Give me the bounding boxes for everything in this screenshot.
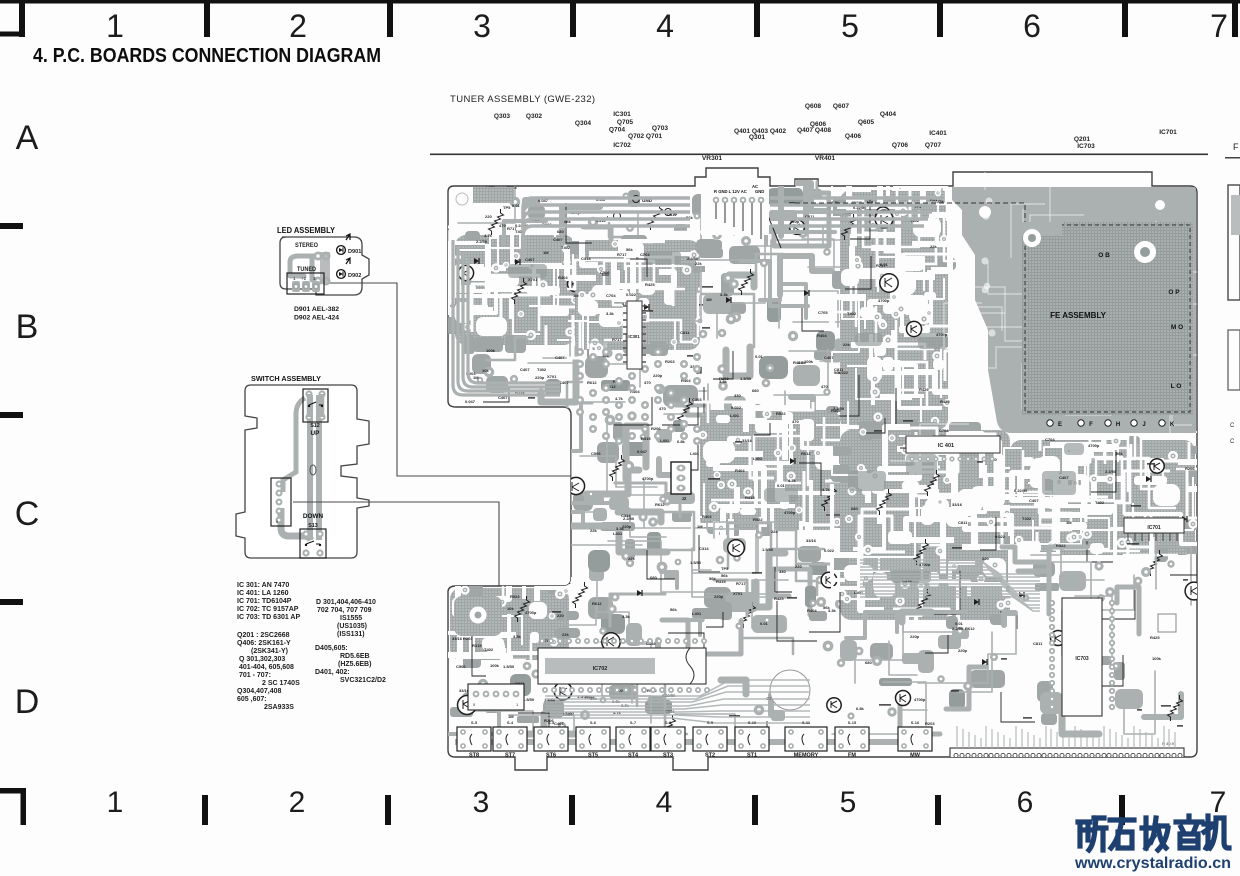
svg-text:F: F bbox=[1089, 422, 1093, 428]
svg-text:O P: O P bbox=[1168, 289, 1180, 296]
svg-text:Q704: Q704 bbox=[609, 127, 625, 134]
svg-text:S-9: S-9 bbox=[707, 720, 714, 725]
svg-text:10k: 10k bbox=[507, 606, 514, 611]
svg-text:C811: C811 bbox=[958, 520, 968, 525]
svg-text:1.5/50: 1.5/50 bbox=[740, 376, 752, 381]
svg-text:680: 680 bbox=[865, 660, 872, 665]
svg-text:1.5/50: 1.5/50 bbox=[503, 664, 515, 669]
svg-text:R717: R717 bbox=[612, 337, 622, 342]
trace fan bundle right bbox=[860, 560, 1040, 611]
svg-text:22k: 22k bbox=[628, 556, 635, 561]
svg-text:0.22/50: 0.22/50 bbox=[1014, 488, 1028, 493]
svg-text:0.022: 0.022 bbox=[824, 548, 835, 553]
svg-text:22k: 22k bbox=[562, 632, 569, 637]
board hole bbox=[770, 670, 810, 710]
ground pad bbox=[454, 596, 502, 636]
svg-text:1M: 1M bbox=[706, 297, 712, 302]
svg-text:R612: R612 bbox=[965, 626, 975, 631]
svg-text:Q201: Q201 bbox=[1074, 136, 1090, 143]
svg-text:R429: R429 bbox=[919, 387, 929, 392]
switch assembly internal traces bbox=[310, 395, 319, 540]
svg-text:0.01: 0.01 bbox=[755, 354, 764, 359]
corner pour square bbox=[473, 187, 514, 203]
switch assembly board outline bbox=[236, 385, 369, 558]
svg-text:IC301: IC301 bbox=[613, 111, 631, 118]
svg-text:C407: C407 bbox=[559, 380, 569, 385]
bottom-left corner bracket bbox=[0, 788, 26, 794]
svg-text:J2: J2 bbox=[682, 496, 687, 501]
FE mounting holes bbox=[1023, 229, 1041, 247]
svg-text:R315: R315 bbox=[641, 436, 651, 441]
svg-text:220: 220 bbox=[485, 214, 492, 219]
svg-text:C407: C407 bbox=[520, 367, 530, 372]
svg-text:C407: C407 bbox=[824, 355, 834, 360]
svg-text:3.3k: 3.3k bbox=[606, 311, 615, 316]
svg-text:IC 401: IC 401 bbox=[938, 443, 954, 449]
svg-text:401-404, 605,608: 401-404, 605,608 bbox=[239, 664, 294, 671]
svg-text:Q407 Q408: Q407 Q408 bbox=[797, 127, 831, 134]
svg-text:S13: S13 bbox=[308, 523, 318, 529]
svg-text:TUNER ASSEMBLY (GWE-232): TUNER ASSEMBLY (GWE-232) bbox=[450, 94, 595, 105]
svg-text:O B: O B bbox=[1098, 252, 1110, 259]
svg-text:R717: R717 bbox=[876, 263, 886, 268]
IC702 bbox=[538, 648, 706, 684]
svg-text:1: 1 bbox=[106, 8, 124, 44]
svg-text:S12: S12 bbox=[310, 423, 320, 429]
svg-text:56k: 56k bbox=[823, 605, 830, 610]
svg-text:33/16: 33/16 bbox=[806, 538, 817, 543]
svg-text:L401: L401 bbox=[690, 451, 700, 456]
tuner board copper texture bbox=[442, 180, 1205, 741]
svg-text:R425: R425 bbox=[774, 596, 784, 601]
svg-text:Q702 Q701: Q702 Q701 bbox=[628, 133, 662, 140]
bottom edge connector strip bbox=[950, 748, 1184, 763]
svg-text:1.5/50: 1.5/50 bbox=[523, 697, 535, 702]
switch MW bbox=[898, 727, 932, 751]
svg-text:C314: C314 bbox=[621, 513, 631, 518]
svg-text:R404: R404 bbox=[702, 514, 712, 519]
svg-text:220: 220 bbox=[982, 556, 989, 561]
svg-text:C314: C314 bbox=[581, 256, 591, 261]
svg-text:R203: R203 bbox=[925, 721, 935, 726]
svg-text:56k: 56k bbox=[626, 247, 633, 252]
oval hole bbox=[310, 465, 316, 475]
svg-text:C: C bbox=[15, 495, 40, 533]
svg-text:56k: 56k bbox=[670, 607, 677, 612]
svg-text:IC703: IC703 bbox=[1075, 656, 1089, 662]
left edge trace band bbox=[453, 240, 560, 395]
svg-text:4700p: 4700p bbox=[525, 610, 537, 615]
svg-text:3: 3 bbox=[473, 786, 490, 819]
svg-text:6: 6 bbox=[1023, 8, 1041, 44]
header separator line bbox=[430, 154, 1208, 156]
svg-text:L401: L401 bbox=[692, 611, 702, 616]
svg-text:10k: 10k bbox=[482, 368, 489, 373]
switch ST8 bbox=[457, 727, 491, 751]
svg-text:C407: C407 bbox=[554, 721, 564, 726]
svg-text:2.2/50: 2.2/50 bbox=[1105, 469, 1117, 474]
svg-text:100k: 100k bbox=[804, 359, 814, 364]
svg-text:S-10: S-10 bbox=[748, 720, 757, 725]
diode D902 bbox=[337, 270, 346, 279]
svg-text:Q301: Q301 bbox=[749, 134, 765, 141]
svg-text:C704: C704 bbox=[640, 252, 650, 257]
switch ST6 bbox=[534, 727, 568, 751]
svg-text:7: 7 bbox=[1210, 8, 1228, 44]
svg-text:R612: R612 bbox=[592, 601, 602, 606]
svg-text:S-11: S-11 bbox=[802, 720, 811, 725]
svg-text:C811: C811 bbox=[680, 330, 690, 335]
trace fan bundle below IC702 bbox=[545, 680, 810, 723]
svg-text:R315: R315 bbox=[716, 579, 726, 584]
svg-text:5: 5 bbox=[840, 786, 857, 819]
wire from switch assembly to tuner board bbox=[293, 502, 499, 586]
svg-text:3: 3 bbox=[473, 8, 491, 44]
svg-text:1: 1 bbox=[107, 786, 124, 819]
svg-text:R612: R612 bbox=[655, 502, 665, 507]
svg-text:22k: 22k bbox=[843, 342, 850, 347]
svg-text:RD5.6EB: RD5.6EB bbox=[340, 653, 370, 660]
svg-text:TP5: TP5 bbox=[503, 205, 511, 210]
svg-text:100k: 100k bbox=[486, 348, 496, 353]
GND label bbox=[633, 196, 640, 203]
svg-text:220p: 220p bbox=[958, 648, 968, 653]
svg-text:(ISS131): (ISS131) bbox=[337, 631, 365, 638]
svg-text:IC 301: AN 7470: IC 301: AN 7470 bbox=[237, 582, 289, 589]
svg-text:L401: L401 bbox=[613, 531, 623, 536]
switch ST7 bbox=[493, 727, 527, 751]
svg-text:D401, 402:: D401, 402: bbox=[315, 669, 350, 676]
svg-text:22k: 22k bbox=[695, 261, 702, 266]
switch ST5 bbox=[576, 727, 610, 751]
svg-text:680: 680 bbox=[557, 229, 564, 234]
svg-text:D902: D902 bbox=[348, 273, 361, 279]
svg-text:2: 2 bbox=[289, 786, 306, 819]
svg-text:4700p: 4700p bbox=[1088, 443, 1100, 448]
svg-text:R717: R717 bbox=[736, 581, 746, 586]
svg-text:33/16: 33/16 bbox=[452, 636, 463, 641]
svg-text:D: D bbox=[15, 683, 40, 721]
svg-text:220p: 220p bbox=[714, 594, 724, 599]
connector J2 bbox=[671, 462, 691, 494]
svg-text:4700p: 4700p bbox=[914, 697, 926, 702]
svg-text:Q703: Q703 bbox=[652, 125, 668, 132]
svg-text:6.8k: 6.8k bbox=[856, 706, 865, 711]
svg-text:680: 680 bbox=[650, 575, 657, 580]
top ruler line bbox=[0, 0, 1240, 4]
top-right copper pour bbox=[948, 187, 1196, 433]
diode D901 bbox=[337, 246, 346, 255]
svg-text:+2: +2 bbox=[301, 276, 307, 281]
svg-text:IC301: IC301 bbox=[628, 334, 640, 339]
svg-text:C704: C704 bbox=[606, 293, 616, 298]
pour faint texture bbox=[1064, 319, 1104, 368]
svg-text:100k: 100k bbox=[1152, 656, 1162, 661]
svg-text:K: K bbox=[1170, 422, 1175, 428]
svg-text:4700p: 4700p bbox=[878, 298, 890, 303]
logo char shou bbox=[1142, 818, 1168, 850]
svg-text:R429: R429 bbox=[793, 360, 803, 365]
svg-text:C407: C407 bbox=[1059, 475, 1069, 480]
svg-text:R612: R612 bbox=[587, 380, 597, 385]
svg-text:5: 5 bbox=[841, 8, 859, 44]
svg-text:IC703: IC703 bbox=[1077, 143, 1095, 150]
svg-text:0.022: 0.022 bbox=[626, 292, 637, 297]
pad grid columns bbox=[576, 348, 584, 356]
svg-text:C506: C506 bbox=[456, 664, 466, 669]
svg-text:STEREO: STEREO bbox=[295, 243, 318, 249]
switch ST1 bbox=[735, 727, 769, 751]
svg-text:R522: R522 bbox=[753, 517, 763, 522]
svg-text:7: 7 bbox=[1210, 786, 1227, 819]
svg-text:3.3k: 3.3k bbox=[513, 634, 522, 639]
svg-text:R404: R404 bbox=[831, 408, 841, 413]
IC703 bbox=[1062, 598, 1102, 716]
pour white holes bbox=[979, 206, 991, 218]
svg-text:680: 680 bbox=[752, 388, 759, 393]
svg-text:Q302: Q302 bbox=[526, 113, 542, 120]
svg-text:56k: 56k bbox=[1116, 451, 1123, 456]
tab pin clearance bbox=[701, 187, 769, 235]
svg-text:S-16: S-16 bbox=[911, 720, 920, 725]
switch 6-pin connector bbox=[271, 478, 291, 526]
svg-text:1M: 1M bbox=[573, 293, 579, 298]
svg-text:C407: C407 bbox=[553, 237, 563, 242]
svg-text:Q707: Q707 bbox=[925, 142, 941, 149]
svg-text:R425: R425 bbox=[645, 282, 655, 287]
svg-text:S-6: S-6 bbox=[590, 720, 597, 725]
svg-text:www.crystalradio.cn: www.crystalradio.cn bbox=[1074, 855, 1231, 872]
IC401 bbox=[906, 436, 1000, 453]
svg-text:0.01: 0.01 bbox=[955, 621, 964, 626]
svg-text:UP: UP bbox=[311, 430, 321, 437]
svg-text:L O: L O bbox=[1171, 383, 1182, 390]
svg-text:0.01: 0.01 bbox=[512, 203, 521, 208]
svg-text:D901 AEL-382: D901 AEL-382 bbox=[294, 306, 339, 313]
svg-text:T402: T402 bbox=[1095, 500, 1105, 505]
svg-text:T402: T402 bbox=[484, 647, 494, 652]
logo char shi bbox=[1110, 820, 1134, 848]
svg-text:T402: T402 bbox=[537, 367, 547, 372]
svg-text:2.2/50: 2.2/50 bbox=[687, 256, 699, 261]
svg-text:2 SC 1740S: 2 SC 1740S bbox=[262, 680, 300, 687]
svg-text:X701: X701 bbox=[528, 277, 538, 282]
svg-text:Q304,407,408: Q304,407,408 bbox=[237, 688, 281, 695]
svg-text:0.01: 0.01 bbox=[760, 621, 769, 626]
svg-text:22k: 22k bbox=[590, 528, 597, 533]
svg-text:R522: R522 bbox=[510, 594, 520, 599]
svg-text:470: 470 bbox=[821, 384, 828, 389]
svg-text:470: 470 bbox=[499, 223, 506, 228]
svg-text:C811: C811 bbox=[834, 367, 844, 372]
svg-text:E: E bbox=[1058, 422, 1062, 428]
svg-text:IC 701: TD6104P: IC 701: TD6104P bbox=[237, 598, 292, 605]
svg-text:Q705: Q705 bbox=[617, 119, 633, 126]
svg-text:T402: T402 bbox=[1022, 516, 1032, 521]
svg-text:C705: C705 bbox=[818, 310, 828, 315]
svg-text:VR401: VR401 bbox=[815, 155, 835, 162]
logo char ji bbox=[1204, 816, 1229, 848]
svg-text:IC701: IC701 bbox=[1147, 525, 1161, 531]
svg-text:1.5/50: 1.5/50 bbox=[690, 560, 702, 565]
svg-text:R425: R425 bbox=[1150, 635, 1160, 640]
svg-text:470: 470 bbox=[659, 406, 666, 411]
svg-text:S-15: S-15 bbox=[848, 720, 857, 725]
svg-text:4: 4 bbox=[656, 8, 674, 44]
svg-text:4700p: 4700p bbox=[642, 476, 654, 481]
svg-text:Q706: Q706 bbox=[892, 142, 908, 149]
svg-text:1M: 1M bbox=[697, 524, 703, 529]
svg-text:220p: 220p bbox=[653, 373, 663, 378]
svg-text:SVC321C2/D2: SVC321C2/D2 bbox=[340, 677, 386, 684]
top-left corner bracket bbox=[0, 32, 25, 37]
switch ST2 bbox=[693, 727, 727, 751]
svg-text:220: 220 bbox=[795, 564, 802, 569]
S12 switch symbol bbox=[309, 402, 323, 405]
svg-text:S-4: S-4 bbox=[507, 720, 514, 725]
svg-text:R522: R522 bbox=[776, 411, 786, 416]
logo char kuang bbox=[1078, 818, 1106, 850]
svg-text:SWITCH ASSEMBLY: SWITCH ASSEMBLY bbox=[251, 374, 321, 383]
svg-text:R404: R404 bbox=[735, 468, 745, 473]
L label bbox=[614, 213, 621, 220]
svg-text:C704: C704 bbox=[1045, 437, 1055, 442]
svg-text:(US1035): (US1035) bbox=[337, 623, 367, 630]
svg-text:220: 220 bbox=[557, 613, 564, 618]
svg-text:4700p: 4700p bbox=[784, 510, 796, 515]
svg-text:Q 301,302,303: Q 301,302,303 bbox=[239, 656, 285, 663]
svg-text:Q605: Q605 bbox=[858, 119, 874, 126]
svg-text:C314: C314 bbox=[699, 546, 709, 551]
svg-text:2: 2 bbox=[289, 8, 307, 44]
svg-text:R404: R404 bbox=[817, 333, 827, 338]
crystalradio.cn logo bbox=[1078, 816, 1229, 850]
svg-text:TP5: TP5 bbox=[721, 566, 729, 571]
FE assembly block bbox=[1022, 222, 1193, 415]
svg-text:22k: 22k bbox=[771, 529, 778, 534]
svg-text:100k: 100k bbox=[490, 663, 500, 668]
svg-text:R315: R315 bbox=[745, 495, 755, 500]
switch ST4 bbox=[616, 727, 650, 751]
IC702 pad rows bbox=[539, 638, 545, 644]
svg-text:33/16: 33/16 bbox=[952, 502, 963, 507]
svg-text:R404: R404 bbox=[807, 608, 817, 613]
switch row band bbox=[455, 739, 930, 745]
svg-text:S-8: S-8 bbox=[665, 720, 672, 725]
svg-text:X701: X701 bbox=[547, 374, 557, 379]
svg-text:4.7k: 4.7k bbox=[615, 396, 624, 401]
svg-text:S-3: S-3 bbox=[548, 720, 555, 725]
svg-text:D 301,404,406-410: D 301,404,406-410 bbox=[316, 599, 376, 606]
svg-text:R612: R612 bbox=[801, 451, 811, 456]
svg-text:Q406: 2SK161-Y: Q406: 2SK161-Y bbox=[237, 640, 291, 647]
IC701 bbox=[1124, 518, 1184, 533]
svg-text:680: 680 bbox=[851, 506, 858, 511]
svg-text:605 ,607:: 605 ,607: bbox=[237, 696, 267, 703]
svg-text:0.01: 0.01 bbox=[777, 483, 786, 488]
svg-text:R203: R203 bbox=[665, 359, 675, 364]
svg-text:IC 703: TD 6301 AP: IC 703: TD 6301 AP bbox=[237, 614, 300, 621]
svg-text:220p: 220p bbox=[535, 375, 545, 380]
switch MEMORY bbox=[785, 727, 827, 751]
svg-text:6: 6 bbox=[1017, 786, 1034, 819]
svg-text:4700p: 4700p bbox=[936, 332, 948, 337]
FE dashed boundary line bbox=[795, 202, 1022, 204]
svg-text:22k: 22k bbox=[930, 244, 937, 249]
switch S12 connector box bbox=[303, 389, 328, 422]
svg-text:330: 330 bbox=[779, 569, 786, 574]
svg-text:L401: L401 bbox=[730, 413, 740, 418]
svg-text:C506: C506 bbox=[591, 451, 601, 456]
svg-text:220p: 220p bbox=[622, 524, 632, 529]
svg-text:Q406: Q406 bbox=[845, 133, 861, 140]
svg-text:1M: 1M bbox=[543, 250, 549, 255]
svg-text:R717: R717 bbox=[617, 252, 627, 257]
svg-text:470: 470 bbox=[792, 419, 799, 424]
wire from LED assembly to tuner board bbox=[330, 283, 571, 476]
svg-text:LED ASSEMBLY: LED ASSEMBLY bbox=[277, 226, 336, 235]
svg-text:FE ASSEMBLY: FE ASSEMBLY bbox=[1050, 311, 1107, 320]
tuner board outline bbox=[448, 168, 1197, 770]
svg-text:IC 401: LA 1260: IC 401: LA 1260 bbox=[237, 590, 289, 597]
svg-text:J: J bbox=[1142, 422, 1145, 428]
svg-text:X701: X701 bbox=[733, 591, 743, 596]
svg-text:Q304: Q304 bbox=[575, 120, 591, 127]
svg-text:Q201 : 2SC2668: Q201 : 2SC2668 bbox=[237, 632, 290, 639]
svg-text:L401: L401 bbox=[660, 438, 670, 443]
svg-text:DOWN: DOWN bbox=[303, 513, 324, 520]
svg-text:Q404: Q404 bbox=[880, 111, 896, 118]
svg-text:4. P.C. BOARDS CONNECTION DIAG: 4. P.C. BOARDS CONNECTION DIAGRAM bbox=[33, 44, 381, 67]
vertical traces into bottom connector bbox=[957, 726, 1175, 748]
svg-text:2SA933S: 2SA933S bbox=[264, 704, 294, 711]
svg-text:H: H bbox=[1116, 422, 1120, 428]
svg-text:C407: C407 bbox=[555, 355, 565, 360]
top horizontal trace bundle bbox=[523, 198, 940, 262]
svg-text:A: A bbox=[16, 119, 39, 157]
switch S13 connector box bbox=[300, 529, 326, 558]
svg-text:S-7: S-7 bbox=[630, 720, 637, 725]
svg-text:M O: M O bbox=[1171, 324, 1183, 331]
svg-text:D901: D901 bbox=[348, 249, 361, 255]
svg-text:0.047: 0.047 bbox=[637, 449, 648, 454]
5-pin connector J3 bbox=[468, 684, 524, 710]
svg-text:R GND L 12V AC: R GND L 12V AC bbox=[714, 189, 747, 194]
svg-text:1M: 1M bbox=[1066, 520, 1072, 525]
svg-text:C: C bbox=[1230, 423, 1235, 429]
svg-text:VR301: VR301 bbox=[702, 155, 722, 162]
svg-text:TUNED: TUNED bbox=[297, 267, 317, 273]
svg-text:IC702: IC702 bbox=[593, 666, 608, 672]
svg-text:680: 680 bbox=[602, 272, 609, 277]
logo char yin bbox=[1176, 816, 1202, 848]
IC301 bbox=[627, 301, 642, 369]
svg-text:Q608: Q608 bbox=[805, 103, 821, 110]
switch FM bbox=[835, 727, 869, 751]
svg-text:1M: 1M bbox=[508, 714, 514, 719]
svg-text:R206: R206 bbox=[651, 426, 661, 431]
svg-text:(2SK341-Y): (2SK341-Y) bbox=[251, 648, 288, 655]
svg-text:4.7k: 4.7k bbox=[788, 478, 797, 483]
svg-text:Q303: Q303 bbox=[494, 113, 510, 120]
svg-text:D902 AEL-424: D902 AEL-424 bbox=[294, 315, 339, 322]
svg-text:R203: R203 bbox=[463, 636, 473, 641]
svg-text:1.5/50: 1.5/50 bbox=[762, 547, 774, 552]
svg-text:33/16: 33/16 bbox=[742, 438, 753, 443]
svg-text:IC701: IC701 bbox=[1159, 129, 1177, 136]
svg-text:IC702: IC702 bbox=[613, 142, 631, 149]
svg-text:R425: R425 bbox=[940, 399, 950, 404]
